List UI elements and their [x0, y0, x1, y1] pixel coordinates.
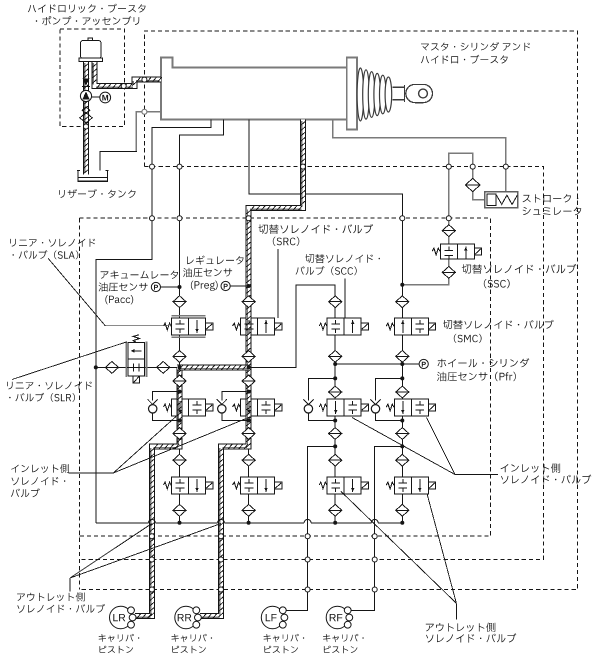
filter below outlet valve LF: [329, 504, 342, 516]
leader SLA label: [48, 258, 169, 326]
filter below outlet valve RF: [396, 504, 409, 516]
stroke simulator: [485, 192, 518, 208]
outlet solenoid valve LR body: [164, 477, 213, 494]
SLR valve symbols: [128, 349, 145, 372]
wire RF caliper tap: [349, 446, 403, 610]
solenoid valve SCC body: [319, 318, 368, 335]
outlet solenoid valve RR body: [233, 477, 282, 494]
boundary crossing nodes: [84, 77, 509, 592]
label inlet solenoid valves right: [501, 463, 592, 484]
filter above row1 valve col RR: [242, 296, 255, 308]
bypass check valve: [217, 399, 227, 413]
pipe accumulator to reservoir: [84, 62, 89, 175]
filter above outlet valve RF: [396, 454, 409, 466]
leader inlet-left label: [69, 417, 251, 474]
pump assembly dashed box: [60, 29, 125, 127]
valve block inner dashed box: [79, 218, 490, 536]
filter above inlet valve LF: [329, 386, 342, 398]
wire LF caliper tap: [284, 446, 335, 610]
leader SCC label: [344, 279, 346, 318]
return line bridges: [149, 519, 379, 522]
filter above outlet valve RR: [242, 454, 255, 466]
bypass check valve: [370, 399, 380, 413]
motor M: [100, 92, 111, 103]
label inlet solenoid valves left: [11, 464, 69, 497]
filter above SSC valve: [442, 225, 455, 237]
label regulator pressure sensor Preg: [183, 256, 244, 291]
solenoid valve SLA symbols: [176, 320, 199, 333]
outlet solenoid valve RR symbols: [245, 479, 268, 492]
filter above inlet valve RR: [242, 375, 255, 387]
inlet solenoid valve RF symbols: [401, 401, 424, 414]
wire SCC feed: [250, 285, 336, 368]
SLA proportional marks: [172, 316, 206, 338]
filter below outlet valve RR: [242, 504, 255, 516]
pipe master cylinder to SRC and RR caliper: [200, 119, 305, 618]
solenoid valve SSC symbols: [444, 247, 467, 260]
caliper piston RR: [175, 606, 202, 628]
pump: [80, 90, 91, 101]
label outlet solenoid valves right: [426, 623, 517, 643]
check valve (pump outlet): [82, 78, 90, 86]
leader SLR label: [12, 342, 127, 380]
filter below row1 valve col RF: [396, 351, 409, 363]
caliper piston RF: [326, 606, 353, 628]
wire reservoir return: [100, 152, 137, 171]
outlet solenoid valve LF body: [319, 477, 368, 494]
label linear solenoid valve SLA: [10, 239, 95, 260]
bypass check valve: [148, 399, 158, 413]
wire check-valve bypass loop: [222, 392, 249, 421]
outlet solenoid valve RF symbols: [398, 479, 421, 492]
valve block dashed left edge: [78, 218, 80, 589]
master cylinder and hydro booster body: [161, 58, 357, 130]
filter below inlet valve LF: [329, 428, 342, 440]
pressure sensor Preg: [221, 281, 230, 290]
filter below row1 valve col LF: [329, 351, 342, 363]
filter below outlet valve LR: [173, 504, 186, 516]
inlet solenoid valve LR symbols: [178, 401, 201, 414]
wire outlet return manifold: [96, 522, 402, 524]
filter (pump suction): [80, 107, 92, 123]
solenoid valve SSC body: [432, 244, 481, 259]
orifice left of SLR: [105, 362, 118, 374]
wire SLR supply line: [96, 366, 180, 368]
push rod: [393, 85, 405, 102]
pipe rear manifold: [177, 365, 249, 370]
orifice right of SLR: [157, 362, 170, 374]
outlet solenoid valve LR symbols: [176, 479, 199, 492]
label accumulator pressure sensor Pacc: [99, 271, 179, 305]
reserve tank: [77, 170, 109, 181]
actuator outer dashed box: [79, 31, 577, 590]
simulator section dashed boundary: [79, 167, 543, 560]
filter above row1 valve col RF: [396, 296, 409, 308]
solenoid valve SRC symbols: [245, 320, 268, 333]
wire check-valve bypass loop: [153, 392, 180, 421]
leader outlet-right label: [341, 492, 456, 620]
filter above inlet valve LR: [173, 375, 186, 387]
wire line B master cylinder to SLA column: [180, 119, 224, 367]
label switching solenoid valve SMC: [443, 320, 554, 343]
inlet solenoid valve LF body: [319, 399, 368, 416]
solenoid valve SMC body: [386, 318, 435, 335]
filter above outlet valve LF: [329, 454, 342, 466]
solenoid valve SLA body: [164, 318, 213, 335]
pressure sensor Pfr: [419, 359, 428, 368]
check valve before stroke simulator: [465, 178, 480, 191]
wire LR outlet column: [179, 446, 181, 522]
inlet solenoid valve RR body: [233, 399, 282, 416]
wire master cylinder to stroke simulator: [333, 119, 506, 191]
wire RR outlet column: [248, 446, 250, 522]
wire Pfr sensor: [335, 363, 419, 365]
filter above outlet valve LR: [173, 454, 186, 466]
accumulator: [79, 38, 103, 62]
leader SRC label: [277, 249, 279, 318]
filter above row1 valve col LR: [173, 296, 186, 308]
label caliper piston RR: [172, 634, 213, 653]
filter below row1 valve col LR: [173, 351, 186, 363]
label caliper piston LF: [264, 634, 305, 653]
label caliper piston LR: [99, 634, 140, 653]
label linear solenoid valve SLR: [7, 382, 92, 402]
inlet solenoid valve LF symbols: [334, 401, 357, 414]
filter below row1 valve col RR: [242, 351, 255, 363]
wire simulator check branch: [473, 166, 486, 200]
leader inlet-right label: [352, 418, 498, 475]
label stroke simulator: [523, 194, 582, 215]
leader outlet-left label: [70, 524, 221, 592]
wire line C master cylinder to SMC: [249, 119, 402, 318]
wire simulator loop: [449, 153, 473, 166]
inlet solenoid valve RR symbols: [248, 401, 271, 414]
caliper piston LF: [261, 606, 288, 628]
label caliper piston RF: [323, 634, 364, 653]
crossing node on return port: [142, 109, 147, 114]
wire SMC column lower: [401, 335, 403, 523]
wire Preg sensor: [230, 285, 248, 287]
label wheel cylinder pressure sensor Pfr: [437, 358, 529, 381]
caliper piston LR: [110, 606, 137, 628]
outlet solenoid valve RF body: [386, 477, 435, 494]
pipe pump to master cylinder: [92, 62, 162, 89]
filter below inlet valve RR: [242, 428, 255, 440]
wire check-valve bypass loop: [376, 378, 403, 420]
wire check-valve bypass loop: [308, 378, 335, 420]
label hydraulic booster pump assembly: [28, 4, 146, 26]
solenoid valve SMC symbols: [401, 320, 424, 333]
solenoid valve SRC body: [233, 318, 282, 335]
bypass check valve: [303, 399, 313, 413]
label switching solenoid valve SSC: [462, 264, 577, 288]
filter above inlet valve RF: [396, 386, 409, 398]
inlet solenoid valve LR body: [164, 399, 213, 416]
filter above row1 valve col LF: [329, 296, 342, 308]
pipe SLA junction to LR caliper: [135, 367, 182, 618]
wire pump to motor: [92, 96, 100, 98]
junction nodes: [94, 283, 405, 525]
booster boot bellows: [357, 68, 392, 121]
wire Pacc sensor: [161, 286, 180, 288]
label switching solenoid valve SRC: [259, 224, 374, 246]
filter below inlet valve LR: [173, 428, 186, 440]
inlet solenoid valve RF body: [386, 399, 435, 416]
pressure sensor Pacc: [151, 282, 160, 291]
wire SSC supply: [402, 160, 449, 285]
filter below inlet valve RF: [396, 428, 409, 440]
wire master cylinder return port: [136, 112, 161, 152]
label switching solenoid valve SCC: [296, 254, 380, 275]
solenoid valve SCC symbols: [331, 320, 354, 333]
wire return line A from master cylinder: [96, 119, 211, 522]
label reserve tank: [59, 189, 136, 198]
filter below SSC valve: [442, 267, 455, 279]
label master cylinder and hydro booster: [421, 42, 530, 64]
outlet solenoid valve LF symbols: [331, 479, 354, 492]
push rod eye: [406, 84, 433, 102]
label outlet solenoid valves left: [17, 592, 105, 613]
wire SCC column lower: [334, 335, 336, 523]
linear solenoid valve SLR body: [126, 335, 146, 383]
